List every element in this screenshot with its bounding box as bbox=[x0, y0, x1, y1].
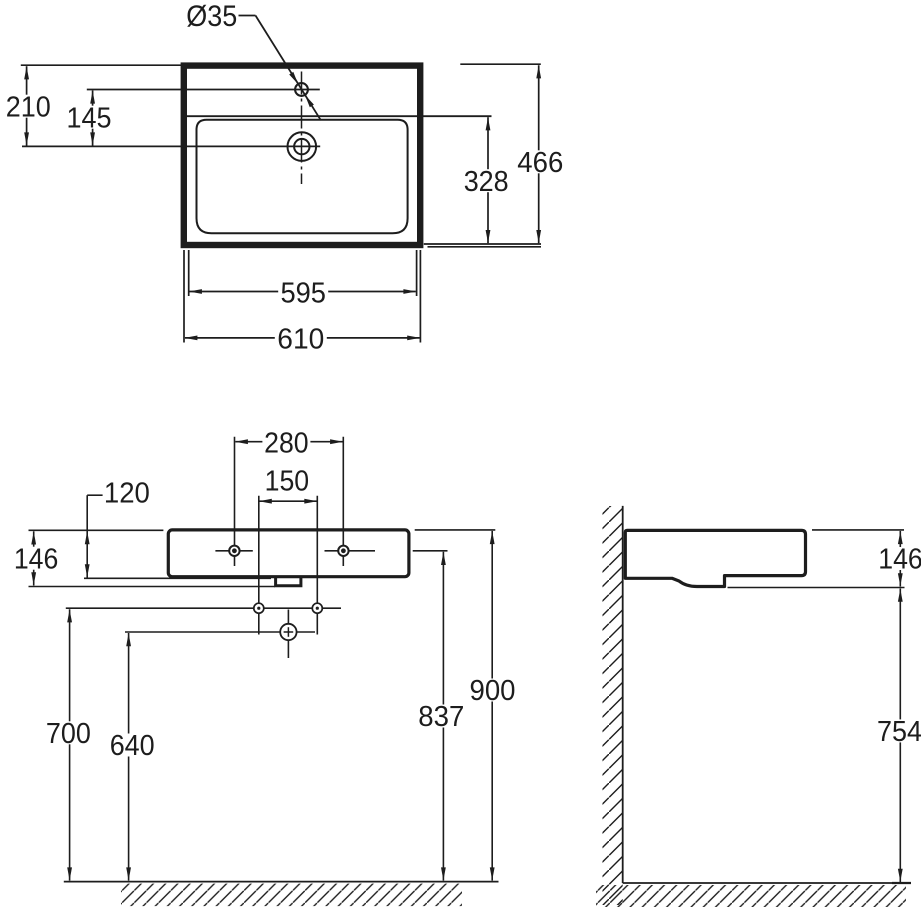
front view: 280 extension left (through left fixing hole) bbox=[234, 437, 236, 566]
top view: washbasin outer rim (thick rect) bbox=[184, 66, 420, 245]
extension line y=65 (top-left) bbox=[21, 64, 181, 66]
dimension 900 text bbox=[469, 675, 517, 707]
dimension 150 line bbox=[259, 500, 317, 502]
front view: basin body rect bbox=[168, 530, 409, 577]
dimension 328 line bbox=[487, 117, 489, 243]
label Ø35 bbox=[186, 0, 237, 33]
dimension 210 line bbox=[26, 66, 28, 145]
front view: 150 extension left bbox=[258, 496, 260, 635]
top view: drain outer circle bbox=[288, 132, 317, 161]
side view: basin profile bbox=[625, 530, 805, 586]
dimension 146 left arrows bbox=[31, 532, 36, 586]
dimension 595 line bbox=[190, 291, 416, 293]
svg-text:280: 280 bbox=[264, 427, 309, 459]
dimension 146 left text bbox=[12, 543, 60, 575]
dimension 280 line bbox=[235, 441, 342, 443]
leader arrowheads at faucet hole bbox=[289, 72, 314, 107]
dimension 754 arrows bbox=[898, 589, 903, 882]
dimension 595 arrows bbox=[189, 289, 417, 294]
side view: wall hatching bbox=[603, 506, 623, 905]
front view: 150 extension right bbox=[316, 496, 318, 635]
side view: floor hatching bbox=[596, 885, 906, 907]
svg-text:146: 146 bbox=[878, 544, 921, 576]
extension line y=608.2 (700 ref through small holes) bbox=[66, 607, 341, 609]
extension line top of basin left (146/120 ref) bbox=[29, 529, 164, 531]
extension line y=529.9 right (900 ref) bbox=[415, 529, 496, 531]
top view: faucet hole circle bbox=[295, 83, 308, 96]
dimension 640 line bbox=[128, 633, 130, 881]
dimension 837 arrows bbox=[441, 552, 446, 880]
dimension 466 text bbox=[515, 147, 565, 179]
dimension 466 arrows bbox=[536, 65, 541, 243]
dimension 120 arrows bbox=[85, 531, 90, 577]
front view: left fixing hole crosshair bbox=[215, 550, 252, 552]
dimension 328 text bbox=[462, 166, 510, 198]
dimension 610 arrows bbox=[184, 336, 420, 341]
extension line y=586.5 (146 bottom ref) bbox=[29, 586, 276, 588]
front view: floor hatching bbox=[121, 884, 462, 907]
front view: right fixing hole crosshair bbox=[325, 550, 376, 552]
svg-text:145: 145 bbox=[67, 102, 112, 134]
dimension 210 arrows bbox=[24, 66, 29, 145]
front view: floor line bbox=[64, 881, 499, 883]
dimension 754 text bbox=[876, 716, 921, 748]
front view: lower-left template hole bbox=[254, 603, 264, 613]
svg-text:Ø35: Ø35 bbox=[186, 0, 237, 33]
svg-text:146: 146 bbox=[14, 543, 59, 575]
dimension 145 line bbox=[92, 91, 94, 146]
top view: basin bowl rounded rect bbox=[197, 120, 408, 234]
dimension 146 right line bbox=[899, 531, 901, 587]
dimension 610 line bbox=[185, 337, 420, 339]
extension line through drain (210/145 ref) bbox=[22, 145, 320, 147]
dimension 150 arrows bbox=[259, 499, 318, 504]
extension line y=244 (466 bottom) bbox=[424, 243, 541, 245]
extension line below rect right inner (595) bbox=[416, 250, 418, 296]
front view: lower-right template hole bbox=[312, 603, 322, 613]
extension line y=246.8 bbox=[428, 246, 542, 248]
svg-text:150: 150 bbox=[265, 465, 310, 497]
svg-text:640: 640 bbox=[110, 730, 155, 762]
extension line y=550.8 right (837 ref) bbox=[413, 550, 448, 552]
dimension 120 text bbox=[104, 477, 150, 509]
dimension 700 line bbox=[69, 609, 71, 880]
svg-text:120: 120 bbox=[104, 477, 150, 509]
dimension 280 arrows bbox=[235, 439, 343, 444]
extension line y=64.8 (466 top) bbox=[460, 63, 541, 65]
top view: deck back edge line (extends right as 328 extension) bbox=[187, 115, 492, 117]
dimension 146 right arrows bbox=[898, 531, 903, 586]
extension line through faucet hole (145 ref) bbox=[87, 89, 320, 91]
dimension 146 left line bbox=[33, 531, 35, 585]
extension line below rect left outer (610) bbox=[183, 250, 185, 343]
front view: drain notch bbox=[276, 578, 301, 586]
svg-text:700: 700 bbox=[46, 718, 91, 750]
dimension 754 line bbox=[899, 589, 901, 883]
dimension 280 text bbox=[262, 427, 310, 459]
dimension 120 leader bbox=[87, 495, 102, 530]
svg-text:610: 610 bbox=[277, 324, 324, 356]
svg-text:466: 466 bbox=[517, 147, 563, 179]
svg-text:328: 328 bbox=[464, 166, 509, 198]
svg-text:210: 210 bbox=[6, 91, 51, 123]
top view: vertical centerline (dash-dot) bbox=[301, 72, 303, 185]
dimension 328 arrows bbox=[486, 117, 491, 243]
front view: drain template hole center cross bbox=[284, 627, 294, 637]
dimension 640 arrows bbox=[126, 633, 131, 880]
leader line for Ø35 bbox=[239, 16, 321, 121]
dimension 700 text bbox=[44, 718, 92, 750]
dimension 900 line bbox=[491, 531, 493, 881]
dimension 700 arrows bbox=[67, 609, 72, 880]
dimension 150 text bbox=[265, 465, 310, 497]
dimension 900 arrows bbox=[490, 531, 495, 880]
extension line y=529.9 (146 top, side) bbox=[812, 529, 904, 531]
front view: drain template hole bbox=[280, 624, 296, 640]
top view: drain inner circle bbox=[294, 139, 309, 154]
dimension 837 text bbox=[417, 701, 465, 733]
side view: floor end tick bbox=[892, 882, 911, 884]
svg-text:900: 900 bbox=[470, 675, 516, 707]
dimension 466 line bbox=[538, 65, 540, 243]
front view: right fixing hole bbox=[338, 546, 348, 556]
extension line below rect right outer (610) bbox=[419, 250, 421, 343]
extension line y=578.3 (120 bottom ref) bbox=[84, 577, 271, 579]
extension line y=632 (640 ref through drain hole) bbox=[125, 631, 315, 633]
svg-text:595: 595 bbox=[280, 277, 326, 309]
dimension 837 line bbox=[442, 552, 444, 881]
dimension 640 text bbox=[108, 730, 156, 762]
side view: floor line bbox=[623, 882, 908, 884]
dimension 595 text bbox=[278, 277, 328, 309]
front view: 280 extension right (through right fixing hole) bbox=[342, 437, 344, 566]
dimension 145 text bbox=[65, 102, 113, 134]
extension line y=587.5 (146 bottom / 754 top, side) bbox=[728, 587, 905, 589]
svg-text:754: 754 bbox=[877, 716, 921, 748]
dimension 210 text bbox=[4, 91, 52, 123]
dimension 120 line bbox=[86, 531, 88, 578]
dimension 610 text bbox=[275, 324, 327, 356]
front view: left fixing hole bbox=[229, 546, 239, 556]
dimension 145 arrows bbox=[90, 91, 95, 146]
side view: wall line bbox=[622, 506, 624, 883]
extension line below rect left inner (595) bbox=[188, 250, 190, 296]
dimension 146 right text bbox=[877, 544, 921, 576]
front view: drain template vertical centerline bbox=[287, 610, 289, 659]
svg-text:837: 837 bbox=[418, 701, 464, 733]
